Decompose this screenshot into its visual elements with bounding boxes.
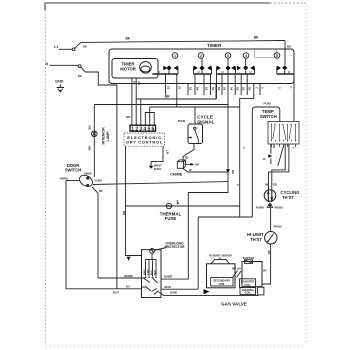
- svg-text:U: U: [250, 70, 252, 74]
- svg-text:PU/BK: PU/BK: [256, 206, 264, 210]
- svg-text:BU: BU: [231, 170, 235, 174]
- svg-text:N: N: [46, 62, 49, 66]
- svg-text:BU/GY: BU/GY: [154, 168, 162, 171]
- svg-text:62: 62: [205, 87, 209, 91]
- svg-text:PU/B: PU/B: [264, 101, 272, 105]
- svg-text:BU: BU: [126, 285, 130, 289]
- svg-text:2: 2: [200, 54, 202, 58]
- svg-text:BK: BK: [126, 37, 131, 41]
- svg-text:63: 63: [211, 87, 215, 91]
- svg-text:TH'ST: TH'ST: [250, 237, 262, 242]
- svg-text:BK: BK: [78, 74, 82, 78]
- svg-text:RUN: RUN: [155, 270, 157, 275]
- svg-text:TH'ST: TH'ST: [282, 195, 294, 200]
- svg-text:T: T: [290, 86, 292, 90]
- svg-text:MOTOR: MOTOR: [120, 67, 136, 72]
- svg-text:TIMER: TIMER: [207, 43, 222, 48]
- svg-text:PROTECTOR: PROTECTOR: [165, 245, 186, 249]
- svg-text:GND: GND: [55, 79, 64, 83]
- svg-text:U: U: [222, 70, 224, 74]
- svg-text:RD/BU: RD/BU: [275, 206, 283, 210]
- svg-text:BU: BU: [88, 125, 92, 129]
- svg-text:4: 4: [245, 54, 247, 58]
- svg-text:3: 3: [227, 54, 229, 58]
- svg-text:FUSE: FUSE: [165, 216, 177, 221]
- svg-text:RD: RD: [273, 183, 277, 187]
- svg-text:WH: WH: [88, 146, 92, 151]
- svg-text:RADIANT SENSOR: RADIANT SENSOR: [209, 254, 232, 257]
- svg-text:BR: BR: [165, 95, 170, 99]
- svg-text:YW/BK: YW/BK: [84, 173, 93, 176]
- svg-text:BK: BK: [83, 44, 87, 48]
- svg-text:GAS VALVE: GAS VALVE: [221, 302, 247, 307]
- svg-text:COIL: COIL: [245, 291, 252, 295]
- svg-text:54: 54: [229, 87, 233, 91]
- svg-text:NA: NA: [238, 268, 242, 271]
- svg-text:53: 53: [236, 87, 240, 91]
- svg-text:1: 1: [174, 54, 176, 58]
- svg-text:55: 55: [223, 87, 227, 91]
- svg-text:T: T: [254, 87, 258, 89]
- svg-text:BK: BK: [265, 183, 269, 187]
- svg-text:L1: L1: [54, 45, 58, 49]
- svg-text:LAMP: LAMP: [106, 131, 110, 142]
- svg-text:BK: BK: [196, 163, 200, 167]
- svg-text:YW/RD: YW/RD: [60, 178, 69, 181]
- svg-text:PU/B: PU/B: [178, 119, 186, 123]
- svg-text:WH: WH: [126, 115, 131, 119]
- svg-text:BU/W: BU/W: [170, 291, 177, 295]
- svg-text:DRY CONTROL: DRY CONTROL: [126, 140, 163, 145]
- svg-text:MAIN: MAIN: [143, 269, 146, 275]
- svg-text:4C: 4C: [263, 157, 266, 161]
- svg-text:U: U: [198, 70, 200, 74]
- svg-text:61: 61: [189, 87, 193, 91]
- svg-text:CHIME: CHIME: [170, 172, 183, 176]
- svg-text:RD: RD: [185, 157, 189, 160]
- svg-text:AUX: AUX: [150, 270, 153, 275]
- svg-text:WH: WH: [232, 268, 236, 271]
- svg-text:COIL: COIL: [244, 283, 251, 287]
- svg-text:BK: BK: [263, 270, 267, 273]
- svg-text:10: 10: [166, 86, 170, 90]
- svg-text:WH/BK: WH/BK: [124, 274, 133, 278]
- svg-text:1 2 3 4 5 6: 1 2 3 4 5 6: [131, 126, 154, 132]
- svg-text:SWITCH: SWITCH: [65, 168, 82, 173]
- svg-text:BK: BK: [99, 190, 103, 193]
- svg-text:SWITCH: SWITCH: [260, 114, 277, 119]
- svg-text:52: 52: [242, 87, 246, 91]
- svg-text:23: 23: [178, 86, 182, 90]
- svg-text:60: 60: [196, 87, 200, 91]
- svg-text:50: 50: [248, 87, 252, 91]
- svg-text:2B: 2B: [137, 81, 141, 85]
- svg-text:BK: BK: [254, 36, 259, 40]
- svg-text:U: U: [288, 70, 290, 74]
- svg-text:YL/BK: YL/BK: [95, 180, 103, 183]
- svg-text:RD/BU: RD/BU: [274, 225, 282, 229]
- svg-text:STRT: STRT: [148, 269, 150, 275]
- svg-text:U: U: [158, 70, 160, 74]
- svg-text:COIL: COIL: [219, 282, 226, 286]
- svg-text:BU/T: BU/T: [113, 291, 119, 295]
- svg-text:BU/B: BU/B: [165, 285, 171, 289]
- svg-text:SIGNAL: SIGNAL: [197, 120, 215, 125]
- svg-text:BK: BK: [267, 251, 271, 255]
- svg-text:56: 56: [217, 87, 221, 91]
- svg-text:BU/RD: BU/RD: [164, 275, 172, 279]
